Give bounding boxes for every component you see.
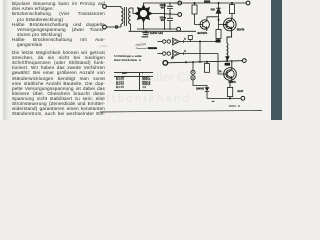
wire secondary bottom to bridge (130, 24, 132, 31)
left text column (12, 1, 105, 6)
wire minus rail (137, 28, 177, 30)
wire DC plus rail (144, 3, 247, 6)
svg-text:5V: 5V (171, 58, 174, 60)
wire lower horizontal (168, 61, 243, 63)
label R blob top rail (204, 0, 210, 2)
svg-text:5: 5 (184, 37, 186, 41)
label winding value (225, 63, 230, 66)
svg-text:40V: 40V (161, 6, 166, 9)
wire driver1 down (199, 42, 201, 63)
left page-edge gradient strip (0, 0, 14, 120)
svg-text:Netzteil: Netzteil (135, 42, 146, 47)
svg-text:BD679: BD679 (237, 29, 245, 32)
bus vertical (164, 3, 166, 29)
label IC1 blob (148, 47, 157, 49)
svg-text:T4: T4 (219, 70, 222, 73)
figure bottom rule (100, 110, 262, 112)
wire bridge bottom (143, 22, 145, 30)
wire mid rail (165, 13, 178, 16)
resistor R6 (227, 87, 232, 96)
terminal bottom right (241, 96, 245, 100)
label dashes (139, 56, 141, 57)
junction circle mains (115, 26, 118, 29)
bleed-through watermark (138, 70, 193, 84)
junction dots filter (143, 2, 171, 30)
wire driver2 to T3 base (218, 54, 224, 75)
diode D2 (205, 87, 210, 91)
wire mains top (106, 6, 121, 8)
label a tick (212, 101, 215, 102)
transistor T1 (200, 20, 209, 29)
svg-text:BD679: BD679 (229, 82, 237, 84)
svg-text:3: 3 (184, 49, 186, 53)
transistor T3 darlington (224, 68, 237, 81)
transformer Tr1 primary (121, 7, 123, 28)
svg-text:0Ω47: 0Ω47 (238, 90, 244, 93)
svg-text:230V~: 230V~ (99, 44, 109, 48)
wire bottom (207, 98, 241, 100)
svg-text:BC547b: BC547b (198, 31, 208, 35)
motor winding L1 (226, 43, 229, 61)
resistor R1 (192, 5, 197, 14)
svg-text:5V6: 5V6 (211, 9, 216, 12)
resistor R2 (230, 5, 235, 14)
wire zener to R4 and T2 base (219, 16, 224, 30)
wire secondary top to bridge (131, 8, 136, 14)
indicator lamp B (191, 76, 195, 80)
label L1 (216, 39, 221, 42)
zener diode D1 (216, 3, 221, 16)
resistor R4 (216, 30, 221, 39)
wire bridge right to bus (152, 13, 165, 15)
connector pin square (188, 36, 192, 40)
svg-text:40V: 40V (161, 19, 166, 22)
svg-text:2x15V 1A2: 2x15V 1A2 (150, 31, 164, 35)
right teal page background bar (271, 0, 282, 120)
svg-text:1N4001: 1N4001 (196, 87, 205, 90)
svg-text:86404 - 11: 86404 - 11 (229, 105, 241, 108)
arrowhead winding current (225, 56, 229, 61)
transformer Tr1 core (125, 7, 127, 26)
ground (145, 30, 147, 32)
wire mains bottom (106, 26, 121, 28)
wire lower rail (129, 30, 197, 32)
output terminal top right (246, 1, 250, 5)
transistor T2 darlington (224, 18, 237, 31)
terminal 0V (178, 13, 182, 17)
bridge rectifier B1 (134, 4, 153, 23)
terminal +V (178, 1, 182, 5)
driver gate IC1b (158, 53, 163, 55)
transformer Tr1 secondary (129, 8, 131, 24)
resistor R5 (205, 64, 210, 73)
indicator lamp A (192, 62, 194, 70)
capacitor C1 (167, 3, 173, 14)
small data table (114, 55, 154, 63)
terminal lower left (163, 61, 168, 66)
schematic figure (95, 0, 282, 120)
terminal -V (177, 27, 181, 31)
driver gate IC1a (158, 41, 163, 43)
junction dots lower wire (185, 60, 228, 63)
terminal K1b (103, 25, 107, 29)
terminal K1a (103, 5, 107, 9)
capacitor C2 (167, 14, 173, 30)
terminal lower right (242, 59, 246, 63)
